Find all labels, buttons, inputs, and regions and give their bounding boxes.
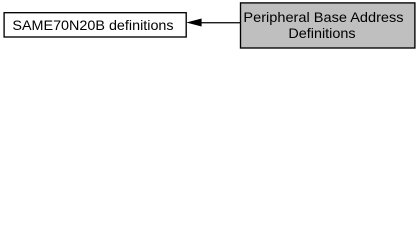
doxygen group dependency graph — [0, 0, 420, 52]
svg-text:Peripheral Base Address: Peripheral Base Address — [243, 9, 403, 25]
wire — [201, 22, 241, 24]
node: Peripheral Base Address Definitions (gray box) — [241, 3, 415, 48]
svg-text:SAME70N20B definitions: SAME70N20B definitions — [12, 17, 173, 33]
arrowhead — [187, 19, 201, 26]
svg-text:Definitions: Definitions — [288, 25, 355, 41]
edge: arrow from gray box to white box — [187, 19, 240, 26]
node: SAME70N20B definitions (white box) — [4, 13, 186, 37]
